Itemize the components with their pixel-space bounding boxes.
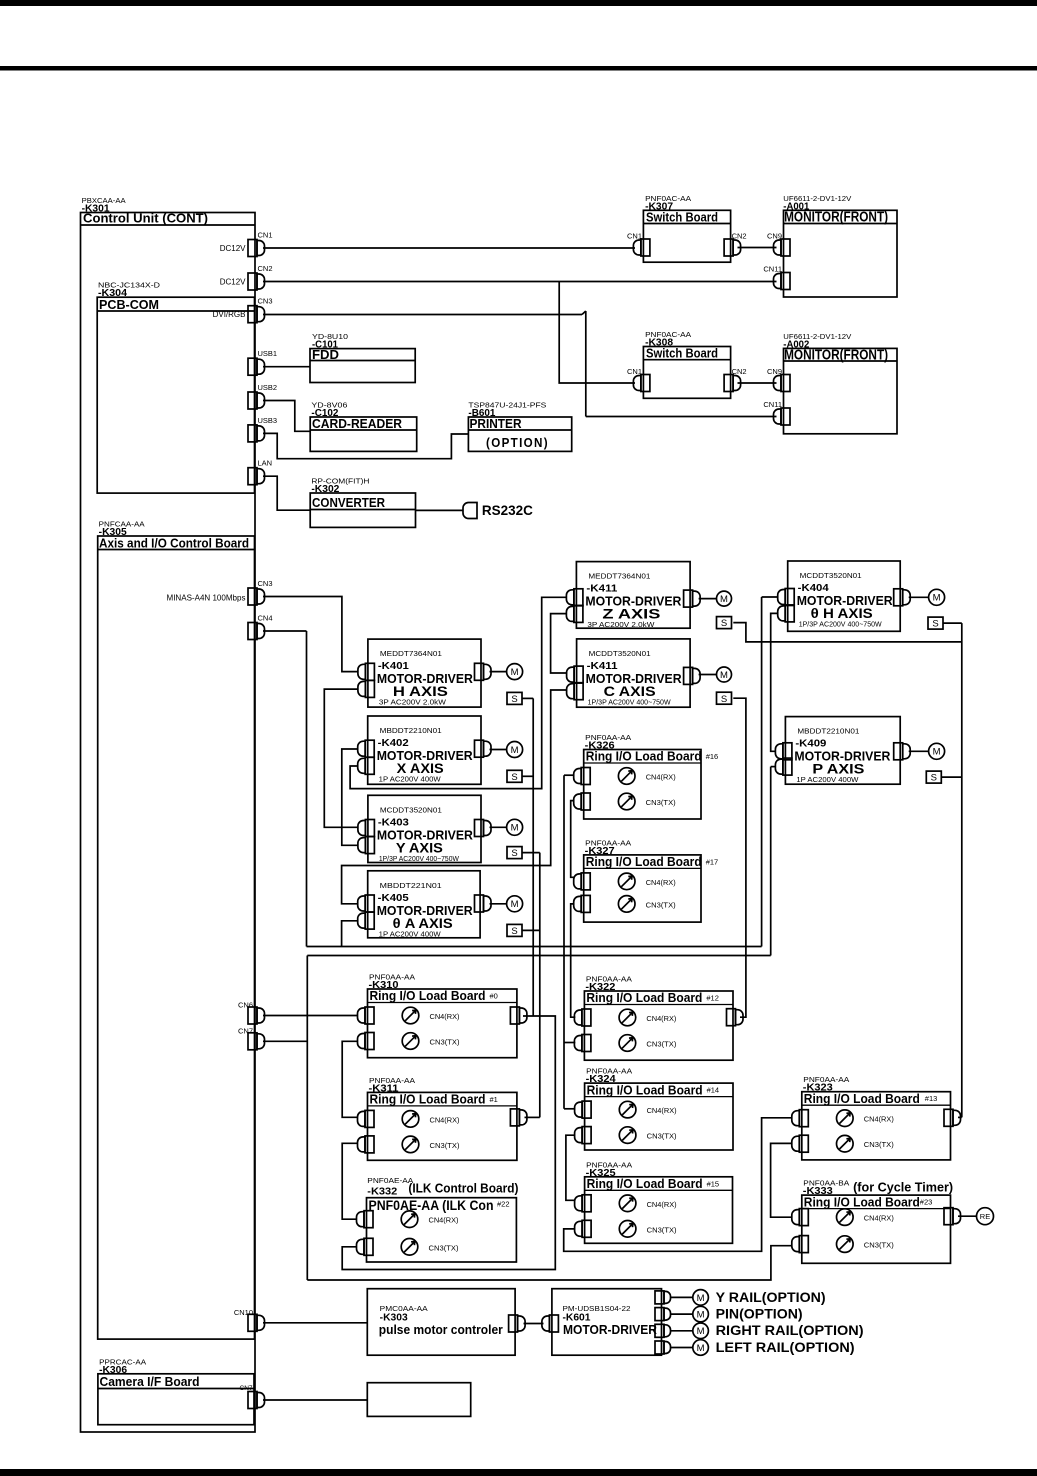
svg-text:DC12V: DC12V bbox=[220, 278, 246, 287]
svg-text:PNF0AE-AA: PNF0AE-AA bbox=[367, 1176, 413, 1185]
svg-text:#22: #22 bbox=[497, 1200, 510, 1209]
svg-text:CN7: CN7 bbox=[240, 1385, 253, 1392]
svg-text:S: S bbox=[932, 619, 938, 630]
svg-text:Ring I/O Load Board: Ring I/O Load Board bbox=[587, 1176, 703, 1191]
svg-text:M: M bbox=[697, 1310, 705, 1321]
svg-text:#15: #15 bbox=[707, 1179, 720, 1188]
svg-text:CN4(RX): CN4(RX) bbox=[430, 1012, 460, 1021]
svg-text:MCDDT3520N01: MCDDT3520N01 bbox=[800, 571, 862, 580]
svg-text:-K302: -K302 bbox=[311, 484, 339, 495]
svg-text:MBDDT221N01: MBDDT221N01 bbox=[380, 881, 442, 890]
svg-text:CN3(TX): CN3(TX) bbox=[864, 1140, 894, 1149]
svg-text:M: M bbox=[511, 667, 519, 678]
svg-text:1P/3P AC200V 400~750W: 1P/3P AC200V 400~750W bbox=[588, 697, 672, 706]
svg-text:#23: #23 bbox=[920, 1198, 933, 1207]
svg-text:M: M bbox=[511, 823, 519, 834]
svg-text:CARD-READER: CARD-READER bbox=[312, 416, 403, 431]
svg-text:PCB-COM: PCB-COM bbox=[99, 297, 159, 312]
svg-text:CN6: CN6 bbox=[238, 1001, 253, 1010]
svg-text:CONVERTER: CONVERTER bbox=[312, 495, 386, 510]
svg-text:CN4(RX): CN4(RX) bbox=[647, 1106, 677, 1115]
svg-text:1P/3P AC200V 400~750W: 1P/3P AC200V 400~750W bbox=[379, 854, 460, 863]
svg-text:CN11: CN11 bbox=[763, 265, 782, 274]
svg-text:CN4(RX): CN4(RX) bbox=[429, 1216, 459, 1225]
svg-text:pulse motor controler: pulse motor controler bbox=[379, 1323, 503, 1337]
svg-text:(OPTION): (OPTION) bbox=[486, 435, 549, 450]
svg-text:Y RAIL(OPTION): Y RAIL(OPTION) bbox=[716, 1290, 826, 1305]
svg-text:Ring I/O Load Board: Ring I/O Load Board bbox=[370, 988, 486, 1003]
svg-text:Ring I/O Load Board: Ring I/O Load Board bbox=[587, 1082, 703, 1097]
svg-text:CN3(TX): CN3(TX) bbox=[646, 798, 676, 807]
svg-text:MBDDT2210N01: MBDDT2210N01 bbox=[797, 727, 859, 736]
svg-text:(for Cycle Timer): (for Cycle Timer) bbox=[853, 1179, 953, 1194]
svg-text:Camera I/F Board: Camera I/F Board bbox=[100, 1375, 200, 1389]
svg-text:S: S bbox=[721, 694, 727, 705]
svg-text:CN2: CN2 bbox=[258, 264, 273, 273]
svg-text:MCDDT3520N01: MCDDT3520N01 bbox=[380, 805, 442, 814]
svg-text:Ring I/O Load Board: Ring I/O Load Board bbox=[804, 1091, 920, 1106]
svg-text:CN3(TX): CN3(TX) bbox=[430, 1038, 460, 1047]
svg-text:Switch Board: Switch Board bbox=[646, 346, 718, 361]
svg-text:#0: #0 bbox=[490, 992, 498, 1001]
svg-text:Axis and I/O Control Board: Axis and I/O Control Board bbox=[99, 535, 249, 550]
svg-text:M: M bbox=[933, 747, 941, 758]
svg-text:USB1: USB1 bbox=[258, 349, 278, 358]
svg-text:CN1: CN1 bbox=[258, 231, 273, 240]
svg-text:CN11: CN11 bbox=[763, 400, 782, 409]
svg-text:Ring I/O Load Board: Ring I/O Load Board bbox=[586, 854, 702, 869]
svg-text:CN1: CN1 bbox=[627, 232, 642, 241]
svg-text:CN3(TX): CN3(TX) bbox=[646, 1040, 676, 1049]
svg-text:CN2: CN2 bbox=[732, 232, 747, 241]
svg-text:M: M bbox=[933, 593, 941, 604]
svg-text:#14: #14 bbox=[707, 1086, 720, 1095]
svg-text:USB2: USB2 bbox=[258, 383, 278, 392]
svg-text:MBDDT2210N01: MBDDT2210N01 bbox=[380, 726, 442, 735]
svg-text:PIN(OPTION): PIN(OPTION) bbox=[716, 1307, 803, 1322]
svg-text:#12: #12 bbox=[706, 994, 719, 1003]
svg-text:M: M bbox=[697, 1293, 705, 1304]
svg-text:CN3: CN3 bbox=[258, 579, 273, 588]
svg-text:1P AC200V 400W: 1P AC200V 400W bbox=[379, 775, 442, 784]
svg-text:CN4(RX): CN4(RX) bbox=[864, 1115, 894, 1124]
svg-text:FDD: FDD bbox=[312, 347, 339, 362]
svg-text:CN10: CN10 bbox=[234, 1308, 253, 1317]
svg-text:CN3(TX): CN3(TX) bbox=[647, 1132, 677, 1141]
svg-text:CN2: CN2 bbox=[732, 367, 747, 376]
svg-text:CN3(TX): CN3(TX) bbox=[429, 1243, 459, 1252]
svg-text:3P AC200V 2.0kW: 3P AC200V 2.0kW bbox=[379, 698, 447, 707]
svg-text:S: S bbox=[931, 773, 937, 784]
svg-text:DC12V: DC12V bbox=[220, 244, 246, 253]
svg-text:#13: #13 bbox=[925, 1094, 938, 1103]
svg-text:1P AC200V 400W: 1P AC200V 400W bbox=[796, 775, 859, 784]
svg-text:S: S bbox=[511, 926, 517, 937]
svg-text:MCDDT3520N01: MCDDT3520N01 bbox=[589, 649, 651, 658]
svg-text:M: M bbox=[720, 670, 728, 681]
svg-text:MEDDT7364N01: MEDDT7364N01 bbox=[588, 572, 650, 581]
svg-text:CN4(RX): CN4(RX) bbox=[646, 878, 676, 887]
svg-text:M: M bbox=[697, 1343, 705, 1354]
svg-text:CN3(TX): CN3(TX) bbox=[646, 900, 676, 909]
svg-text:CN3(TX): CN3(TX) bbox=[430, 1141, 460, 1150]
svg-text:CN4(RX): CN4(RX) bbox=[646, 1014, 676, 1023]
svg-text:(ILK Control Board): (ILK Control Board) bbox=[408, 1181, 518, 1196]
svg-text:RIGHT RAIL(OPTION): RIGHT RAIL(OPTION) bbox=[716, 1323, 864, 1338]
svg-text:PNF0AE-AA (ILK Con: PNF0AE-AA (ILK Con bbox=[369, 1198, 494, 1213]
svg-text:#17: #17 bbox=[706, 857, 719, 866]
svg-text:MINAS-A4N 100Mbps: MINAS-A4N 100Mbps bbox=[167, 594, 246, 603]
svg-text:CN4: CN4 bbox=[258, 614, 273, 623]
svg-text:1P AC200V 400W: 1P AC200V 400W bbox=[379, 929, 442, 938]
svg-text:CN9: CN9 bbox=[767, 367, 782, 376]
svg-text:-K303: -K303 bbox=[380, 1313, 408, 1324]
svg-text:Control Unit (CONT): Control Unit (CONT) bbox=[83, 211, 208, 226]
svg-text:M: M bbox=[720, 594, 728, 605]
svg-text:RS232C: RS232C bbox=[482, 502, 533, 518]
svg-text:CN3: CN3 bbox=[258, 297, 273, 306]
svg-text:M: M bbox=[697, 1326, 705, 1337]
svg-text:Ring I/O Load Board: Ring I/O Load Board bbox=[586, 749, 702, 764]
svg-text:Switch Board: Switch Board bbox=[646, 209, 718, 224]
svg-text:-K332: -K332 bbox=[367, 1187, 397, 1198]
svg-text:CN4(RX): CN4(RX) bbox=[647, 1200, 677, 1209]
svg-text:MEDDT7364N01: MEDDT7364N01 bbox=[380, 649, 442, 658]
svg-text:MONITOR(FRONT): MONITOR(FRONT) bbox=[784, 209, 888, 225]
svg-text:CN1: CN1 bbox=[627, 367, 642, 376]
svg-text:RE: RE bbox=[980, 1212, 990, 1221]
svg-text:CN4(RX): CN4(RX) bbox=[430, 1115, 460, 1124]
svg-text:CN3(TX): CN3(TX) bbox=[864, 1241, 894, 1250]
svg-text:LEFT RAIL(OPTION): LEFT RAIL(OPTION) bbox=[716, 1340, 855, 1355]
svg-text:CN3(TX): CN3(TX) bbox=[647, 1225, 677, 1234]
svg-text:S: S bbox=[511, 848, 517, 859]
svg-text:3P AC200V 2.0kW: 3P AC200V 2.0kW bbox=[587, 620, 655, 629]
svg-text:MOTOR-DRIVER: MOTOR-DRIVER bbox=[563, 1322, 658, 1337]
svg-text:CN9: CN9 bbox=[767, 232, 782, 241]
svg-text:#1: #1 bbox=[490, 1095, 498, 1104]
svg-text:DVI/RGB: DVI/RGB bbox=[213, 310, 246, 319]
svg-text:M: M bbox=[511, 745, 519, 756]
svg-text:CN4(RX): CN4(RX) bbox=[646, 773, 676, 782]
svg-text:USB3: USB3 bbox=[258, 416, 278, 425]
svg-text:CN7: CN7 bbox=[238, 1026, 253, 1035]
svg-text:LAN: LAN bbox=[258, 459, 273, 468]
svg-text:Ring I/O Load Board: Ring I/O Load Board bbox=[370, 1092, 486, 1107]
svg-text:CN4(RX): CN4(RX) bbox=[864, 1214, 894, 1223]
svg-text:Ring I/O Load Board: Ring I/O Load Board bbox=[586, 990, 702, 1005]
svg-text:S: S bbox=[511, 772, 517, 783]
svg-text:1P/3P AC200V 400~750W: 1P/3P AC200V 400~750W bbox=[799, 620, 883, 629]
svg-text:Ring I/O Load Board: Ring I/O Load Board bbox=[804, 1194, 920, 1209]
svg-text:S: S bbox=[511, 694, 517, 705]
svg-text:MONITOR(FRONT): MONITOR(FRONT) bbox=[784, 348, 888, 364]
svg-text:#16: #16 bbox=[706, 752, 719, 761]
svg-text:PRINTER: PRINTER bbox=[470, 416, 523, 431]
svg-text:M: M bbox=[511, 899, 519, 910]
svg-text:S: S bbox=[721, 618, 727, 629]
